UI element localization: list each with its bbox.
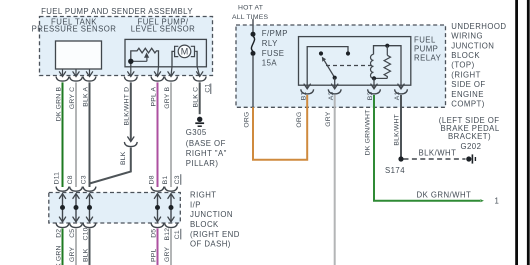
svg-text:RIGHT "A": RIGHT "A" [186, 149, 227, 158]
label DK GRN B [55, 87, 62, 122]
ground G305 [195, 117, 204, 127]
svg-text:1: 1 [495, 197, 500, 206]
inline connector on BLK wire [124, 137, 137, 147]
svg-text:D2: D2 [55, 229, 62, 238]
label BLK/WHT D [124, 87, 131, 126]
svg-text:LEVEL SENSOR: LEVEL SENSOR [131, 25, 195, 34]
svg-text:DK GRN/WHT: DK GRN/WHT [365, 110, 372, 156]
fuel pump motor M [172, 45, 197, 67]
connector designator C1 (underlined) [205, 83, 212, 94]
svg-text:OF DASH): OF DASH) [190, 240, 231, 249]
svg-text:PPL: PPL [150, 249, 157, 262]
svg-text:G305: G305 [186, 128, 207, 137]
svg-text:BLK/WHT: BLK/WHT [419, 149, 457, 158]
svg-text:(RIGHT: (RIGHT [451, 70, 481, 79]
svg-text:C5: C5 [69, 229, 76, 238]
label 1 [495, 197, 500, 206]
svg-text:(RIGHT END: (RIGHT END [190, 230, 240, 239]
svg-text:SIDE OF: SIDE OF [451, 80, 485, 89]
svg-text:ENGINE: ENGINE [451, 90, 484, 99]
resistor zigzag [384, 55, 390, 78]
label ORG (left leg) [243, 112, 250, 128]
label GRY C [69, 87, 76, 109]
rheostat (level sensor) R [128, 48, 158, 66]
wire DK GRN B (pressure sensor sig) [62, 82, 64, 187]
relay armature dashed link [326, 65, 372, 67]
label: FUEL PUMP AND SENDER ASSEMBLY [41, 7, 193, 16]
right I/P junction block dashed box [49, 193, 181, 224]
wire GRY B [170, 82, 172, 187]
wire GRY C [75, 82, 77, 187]
svg-text:PPL A: PPL A [150, 87, 157, 107]
pressure sensor pin stubs [63, 69, 90, 76]
label PPL A [150, 87, 157, 107]
svg-text:WIRING: WIRING [451, 32, 483, 41]
label GRY [325, 111, 332, 126]
svg-text:I/P: I/P [190, 200, 201, 209]
svg-text:C10: C10 [82, 227, 89, 240]
svg-text:ALL TIMES: ALL TIMES [232, 14, 268, 21]
fuse F/PMP RLY FUSE 15A [251, 19, 256, 108]
page edge rule lines [515, 0, 530, 265]
svg-text:C8: C8 [67, 175, 74, 184]
svg-text:B1: B1 [162, 176, 169, 185]
svg-text:ORG: ORG [296, 112, 303, 128]
label DK GRN/WHT (horizontal) [417, 190, 472, 199]
label F/PMP RLY FUSE 15A [262, 29, 288, 67]
svg-text:GRY: GRY [325, 111, 332, 126]
svg-text:RIGHT: RIGHT [190, 191, 217, 200]
svg-text:BLK: BLK [120, 151, 127, 165]
label (LEFT SIDE OF BRAKE PEDAL BRACKET) [439, 116, 500, 141]
svg-text:C3: C3 [174, 175, 181, 184]
label: FUEL TANK PRESSURE SENSOR [32, 18, 117, 34]
wire BLK C to ground [199, 82, 201, 114]
svg-text:BRACKET): BRACKET) [448, 132, 491, 141]
wires below junction block [62, 228, 64, 265]
svg-text:DK GRN/WHT: DK GRN/WHT [417, 190, 472, 199]
svg-text:D11: D11 [54, 172, 61, 185]
label G305 (BASE OF RIGHT "A" PILLAR) [186, 128, 227, 168]
dashed wire BLK/WHT to G202 [404, 158, 466, 160]
fuel tank pressure sensor box [56, 41, 102, 69]
junction dot on rheostat return [128, 59, 133, 64]
svg-text:JUNCTION: JUNCTION [190, 210, 233, 219]
svg-text:15A: 15A [262, 59, 278, 68]
svg-text:GRY B: GRY B [164, 87, 171, 109]
svg-text:FUSE: FUSE [262, 49, 285, 58]
svg-text:HOT AT: HOT AT [238, 4, 263, 11]
splice S174 [385, 156, 405, 175]
svg-text:BLK/WHT D: BLK/WHT D [124, 87, 131, 126]
svg-text:PILLAR): PILLAR) [186, 159, 219, 168]
label UNDERHOOD WIRING JUNCTION BLOCK (TOP) (RIGHT SIDE OF ENGINE COMPT) [451, 22, 506, 109]
svg-text:M: M [181, 47, 189, 57]
connector C1 pins at assembly boundary (arrow + cup) x7 [56, 72, 206, 81]
svg-text:FUEL PUMP AND SENDER ASSEMBLY: FUEL PUMP AND SENDER ASSEMBLY [41, 7, 193, 16]
wire BLK A [89, 82, 91, 187]
fuel pump and sender assembly dashed box [40, 17, 213, 76]
label BLK C [193, 87, 200, 108]
label DK GRN/WHT (vertical) [365, 110, 372, 156]
svg-text:UNDERHOOD: UNDERHOOD [451, 22, 506, 31]
wire BLK/WHT D (upper) [130, 82, 132, 141]
svg-text:C3: C3 [81, 175, 88, 184]
svg-text:BLK/WHT: BLK/WHT [394, 114, 401, 146]
svg-text:RELAY: RELAY [414, 53, 442, 62]
svg-text:S174: S174 [385, 166, 405, 175]
svg-text:PUMP: PUMP [414, 44, 438, 53]
label HOT AT ALL TIMES [232, 4, 268, 21]
pin labels above junction block: D11 C8 C3 D8 B1 and designator C3 [54, 172, 182, 185]
fuel pump/level sensor box [125, 39, 206, 66]
label BLK [120, 151, 127, 165]
junction block bottom cups [56, 223, 177, 228]
pin labels below junction block: D2 C5 C10 D5 B12, designator C1 [55, 227, 181, 240]
svg-text:GRY C: GRY C [69, 87, 76, 109]
svg-text:JUNCTION: JUNCTION [451, 41, 494, 50]
junction block pass-through pins (arrow up, arrow down, centre dot) [59, 194, 174, 222]
wire ORG fuse leg [253, 95, 307, 160]
label BLK A [82, 87, 89, 107]
svg-text:B12: B12 [164, 228, 171, 241]
fuel pump relay K box [299, 37, 411, 86]
svg-text:(BASE OF: (BASE OF [186, 139, 226, 148]
wire BLK (lower, to junction block C3) [90, 147, 131, 187]
label RIGHT I/P JUNCTION BLOCK (RIGHT END OF DASH) [190, 191, 240, 249]
svg-text:PRESSURE SENSOR: PRESSURE SENSOR [32, 25, 117, 34]
svg-text:DK GRN: DK GRN [55, 245, 62, 265]
ground G202 [461, 142, 482, 164]
wire colour labels below block (clipped at bottom) [55, 245, 171, 265]
svg-text:(TOP): (TOP) [451, 61, 474, 70]
svg-text:D5: D5 [150, 229, 157, 238]
inductor winding [371, 54, 374, 78]
svg-text:DK GRN B: DK GRN B [55, 87, 62, 122]
relay coil (inductor + resistor in parallel) [371, 44, 402, 89]
svg-text:COMPT): COMPT) [451, 100, 484, 109]
relay internal: B1 feed wire [307, 47, 350, 89]
svg-text:C1: C1 [174, 230, 181, 239]
junction block top cups [56, 187, 177, 192]
label ORG (relay B1 leg) [296, 112, 303, 128]
svg-text:ORG: ORG [243, 112, 250, 128]
wire DK GRN/WHT from relay B3 [374, 95, 484, 202]
label BLK/WHT (vertical) [394, 114, 401, 146]
label GRY B [164, 87, 171, 109]
svg-text:G202: G202 [461, 142, 482, 151]
svg-text:BLK C: BLK C [193, 87, 200, 108]
label FUEL PUMP RELAY [414, 35, 442, 62]
wire GRY from relay A3 [334, 95, 336, 265]
svg-text:GRY: GRY [69, 247, 76, 262]
pump/sensor pin stubs [131, 67, 200, 76]
svg-text:F/PMP: F/PMP [262, 29, 288, 38]
relay switch fixed contact [319, 51, 323, 55]
relay pins B1 A3 B3 A1 (arrow + cup + label) [300, 84, 407, 100]
wire PPL A [157, 82, 159, 187]
svg-text:BLOCK: BLOCK [190, 220, 219, 229]
svg-text:GRY: GRY [164, 247, 171, 262]
svg-text:RLY: RLY [262, 39, 278, 48]
svg-text:BLK A: BLK A [82, 87, 89, 107]
wiper arm of rheostat [146, 57, 148, 62]
svg-text:D8: D8 [149, 175, 156, 184]
svg-text:BLOCK: BLOCK [451, 51, 480, 60]
svg-text:FUEL: FUEL [414, 35, 436, 44]
relay switch arm [322, 57, 337, 89]
wire BLK/WHT from relay A1 [400, 95, 402, 158]
svg-text:BLK: BLK [82, 248, 89, 262]
label BLK/WHT (horizontal) [419, 149, 457, 158]
underhood wiring junction block dashed box [236, 25, 446, 107]
label: FUEL PUMP/LEVEL SENSOR [131, 18, 195, 34]
